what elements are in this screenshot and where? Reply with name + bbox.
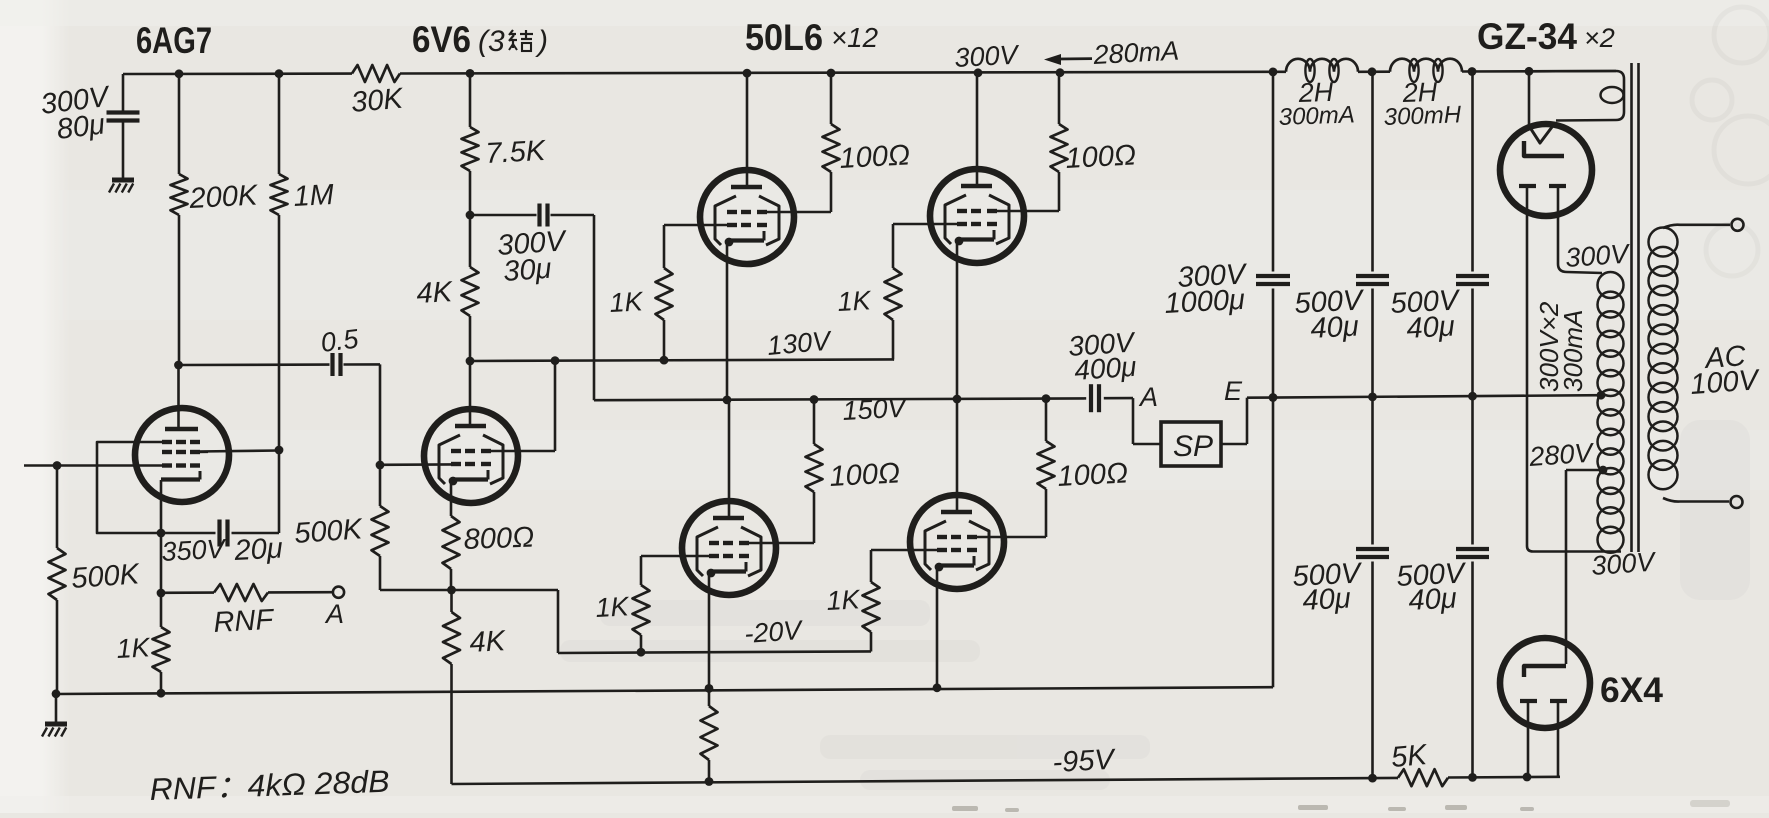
choke 2H 300mA (1286, 59, 1358, 82)
svg-text:100Ω: 100Ω (1057, 457, 1129, 493)
wire UR grid stub (893, 224, 957, 268)
label 280mA (1092, 36, 1180, 70)
resistor 1K UR grid (885, 268, 902, 320)
svg-text:350V: 350V (161, 534, 229, 567)
svg-text:280mA: 280mA (1092, 36, 1180, 70)
resistor 100ohm UL screen (823, 124, 840, 172)
label 1M (293, 179, 336, 213)
label E return (1224, 376, 1243, 406)
svg-text:300mA: 300mA (1558, 310, 1588, 392)
svg-text:1M: 1M (293, 179, 336, 213)
svg-text:40μ: 40μ (1406, 311, 1456, 345)
wire screen row lead-in (197, 450, 208, 453)
resistor 1K LL grid (633, 585, 650, 635)
capacitor 40u-3 plates (1356, 549, 1389, 557)
resistor 1K LR grid (863, 582, 880, 632)
wire UL screen stub (766, 172, 831, 212)
tube 6AG7 cathode bar (161, 471, 200, 480)
label 7.5K (485, 135, 548, 170)
wire 280V tap (1566, 469, 1603, 472)
svg-text:30μ: 30μ (502, 253, 552, 288)
resistor 5K (bias bleed) (1398, 769, 1448, 786)
wire 6V6 cathode stem (450, 478, 453, 516)
label 150V (842, 393, 910, 426)
wire 40u-2 vertical top (1471, 72, 1474, 272)
transformer core (1632, 63, 1639, 552)
label 500V 40u lower-1 (1292, 557, 1364, 617)
svg-text:7.5K: 7.5K (485, 135, 548, 170)
label 300V 1000u (1164, 258, 1249, 320)
node bias divider bottom (705, 777, 714, 786)
node 280V tap (1599, 466, 1608, 475)
svg-text:E: E (1224, 376, 1243, 406)
node 100ohm ML on rail (810, 395, 819, 404)
node UR cathode on rail (953, 395, 962, 404)
wire LL cathode stem (708, 571, 711, 688)
svg-text:1K: 1K (837, 285, 873, 317)
wire LR plate stem (956, 399, 959, 510)
tube GZ-34 plate right (1549, 184, 1566, 188)
label 500V 40u upper-1 (1294, 284, 1366, 345)
svg-text:150V: 150V (842, 393, 910, 426)
wire g3 row lead-in (136, 441, 162, 444)
wire LR cathode stem (936, 565, 939, 688)
wire 0.5 cap to grid corner (344, 364, 381, 465)
svg-text:40μ: 40μ (1302, 583, 1352, 617)
wire UL grid stub (664, 225, 727, 268)
wire 40u-2 vertical middle (1471, 289, 1474, 545)
label A terminal (324, 599, 344, 629)
node input junction (53, 461, 62, 470)
capacitor 40u-2 plates (1456, 276, 1489, 284)
svg-text:50L6: 50L6 (745, 17, 823, 58)
label 300Vx2 300mA rotated (1534, 301, 1588, 392)
wire UL plate stem (746, 73, 749, 185)
filament winding loop (1601, 87, 1624, 103)
resistor 1M (screen feed) (271, 174, 288, 215)
svg-text:1K: 1K (116, 632, 152, 664)
label 300V 400u (1067, 326, 1137, 386)
label 2H 300mH (1383, 77, 1462, 131)
svg-text:280V: 280V (1527, 437, 1596, 472)
wire 1000u vertical top (1272, 72, 1275, 272)
node bootstrap (466, 211, 475, 220)
wire AC top lead (1663, 225, 1730, 228)
label 1K UR (837, 285, 873, 317)
wire LL 100ohm to rail (813, 400, 816, 444)
ground symbol (main) (42, 694, 67, 737)
resistor 800ohm (6V6 cathode) (443, 516, 460, 569)
tube 6AG7 plate bar (165, 427, 198, 432)
tube 6AG7 plate stem (177, 425, 180, 430)
capacitor 30u plates (540, 204, 548, 227)
svg-text:100Ω: 100Ω (839, 139, 911, 175)
tube 50L6 lower-left (682, 501, 776, 595)
wire 40u-1 vertical bottom (1371, 562, 1374, 778)
node 40u-2 bottom (1468, 773, 1477, 782)
svg-text:6X4: 6X4 (1600, 671, 1664, 710)
wire g3-to-cathode tie (97, 442, 159, 533)
svg-text:×2: ×2 (1584, 23, 1615, 53)
resistor 500K (input load) (49, 466, 66, 693)
svg-text:100Ω: 100Ω (829, 457, 901, 493)
wire UL cathode stem (726, 240, 729, 400)
label RNF formula (149, 764, 390, 807)
resistor 500K (6V6 grid leak) (372, 465, 453, 590)
wire 150V output rail (594, 398, 1084, 400)
capacitor 20u plates (220, 520, 228, 547)
wire cathode node to -20V line (452, 590, 559, 653)
wire screen node down to 20u cap (278, 450, 281, 533)
wire 30u cap to 150V rail (551, 215, 595, 400)
node LL cathode on ground bus (705, 684, 714, 693)
tube 6X4 cathode left (1520, 701, 1537, 777)
capacitor 400u plates (1091, 384, 1099, 412)
svg-text:-95V: -95V (1052, 744, 1118, 779)
svg-text:300V: 300V (1564, 238, 1632, 273)
wire LL screen stub (748, 492, 814, 543)
label 5K (1390, 739, 1430, 774)
capacitor 0.5 plates (333, 353, 341, 376)
wire plate node to 0.5 cap (179, 363, 330, 366)
label 1K UL (609, 286, 645, 318)
tube GZ-34 cathode bar (1524, 141, 1564, 156)
node E/1000u junction (1269, 393, 1278, 402)
resistor 1K (6AG7 cathode) (153, 593, 170, 693)
wire 20u cap right lead (232, 532, 280, 535)
wire UR cathode stem (956, 239, 959, 399)
resistor bias divider (701, 688, 718, 781)
wire 40u-1 vertical top (1371, 72, 1374, 272)
node 100ohm MR on rail (1042, 394, 1051, 403)
wire UR 100ohm to B+ (1058, 73, 1061, 124)
wire UR screen stub (996, 172, 1059, 211)
svg-text:1K: 1K (595, 591, 631, 623)
svg-text:6V6: 6V6 (412, 19, 471, 60)
tube 6X4 cathode right (1550, 701, 1567, 777)
svg-text:300mA: 300mA (1278, 101, 1355, 131)
wire E line down to ground bus (1272, 398, 1275, 688)
resistor 4K (to -95V) (443, 590, 460, 784)
resistor 100ohm LR screen (1038, 441, 1055, 489)
capacitor 40u-1 plates (1356, 276, 1389, 284)
svg-text:30K: 30K (350, 82, 406, 119)
choke 2H 300mH (1390, 59, 1462, 82)
wire B+ to 1M (278, 74, 281, 174)
label 500V 40u upper-2 (1390, 284, 1462, 345)
wire 20u cap left lead (161, 532, 216, 535)
node ground left corner (52, 689, 61, 698)
node 6AG7 plate (174, 361, 183, 370)
wire LR grid stub (871, 550, 937, 582)
label 6AG7 (136, 20, 212, 61)
svg-text:800Ω: 800Ω (463, 522, 535, 556)
label A output (1138, 382, 1158, 412)
label x12 (831, 22, 878, 53)
label 800ohm (463, 522, 535, 556)
label kanji 3-ketsu (509, 30, 533, 51)
resistor 4K (bootstrap lower) (462, 267, 479, 316)
wire 40u-1 vertical middle (1371, 289, 1374, 545)
capacitor 40u-4 plates (1456, 549, 1489, 557)
wire 6AG7 cathode stem (160, 480, 163, 593)
svg-text:RNF: RNF (213, 604, 276, 639)
resistor 7.5K (bootstrap upper) (462, 127, 479, 171)
label (3 (478, 25, 505, 58)
wire GZ34 left plate to winding bottom (1527, 186, 1621, 552)
svg-text:4K: 4K (469, 625, 508, 659)
label 350V 20u (161, 533, 284, 568)
node 40u-2 on E line (1468, 392, 1477, 401)
wire cap 80u to ground (122, 121, 125, 180)
wire AC bottom lead (1663, 498, 1729, 502)
transformer AC primary winding (1649, 228, 1678, 490)
label 300V winding bottom (1590, 546, 1658, 581)
wire 400u to A corner (1104, 398, 1161, 444)
wire screen stub of 6AG7 (197, 451, 279, 452)
wire B+ to filter cap 80u (122, 74, 125, 111)
speaker box SP (1161, 422, 1221, 466)
wire RNF lead (161, 591, 214, 594)
svg-text:A: A (324, 599, 344, 629)
label SP (1173, 430, 1213, 463)
svg-text:4K: 4K (416, 276, 455, 310)
svg-text:500K: 500K (293, 513, 364, 550)
label 2H 300mA (1278, 77, 1355, 131)
svg-text:-20V: -20V (743, 615, 805, 649)
wire -95V bus left (452, 778, 1399, 784)
wire LL 1K to -20V bus (640, 635, 643, 653)
node 130V takeoff (466, 357, 475, 366)
svg-text:1K: 1K (826, 584, 862, 616)
label 300V 30u (496, 225, 568, 288)
svg-text:130V: 130V (766, 325, 834, 361)
label 4K lower (469, 625, 508, 659)
wire 6V6 screen up to 130V bus (490, 361, 555, 451)
label 280V (1527, 437, 1596, 472)
label 0.5 (319, 323, 361, 357)
terminal AC bottom (1731, 496, 1743, 508)
label 1K LL (595, 591, 631, 623)
tube 6AG7 envelope (135, 408, 229, 502)
tube 6X4 plate bar (1524, 666, 1566, 677)
svg-text:80μ: 80μ (55, 108, 107, 146)
node screen tie (551, 356, 560, 365)
resistor 100ohm UR screen (1051, 124, 1068, 172)
wire 280V to 6X4 plate (1565, 470, 1568, 664)
svg-text:SP: SP (1173, 430, 1213, 463)
svg-text:500K: 500K (70, 558, 141, 595)
wire -20V bias bus (558, 651, 871, 653)
node 40u-1 bottom (1368, 774, 1377, 783)
wire UR 1K to 130V bus end (893, 320, 894, 360)
capacitor 1000u plates (1256, 276, 1290, 284)
resistor 30K (series in B+ line) (352, 65, 400, 82)
wire B+ to 200K (178, 74, 181, 174)
resistor 1K UL grid (656, 268, 673, 320)
svg-text:300V: 300V (954, 40, 1022, 73)
wire B+ to GZ34 filament (1528, 71, 1531, 126)
label 300V winding top (1564, 238, 1632, 273)
svg-text:200K: 200K (188, 179, 260, 215)
terminal AC top (1732, 219, 1744, 231)
resistor 100ohm LL screen (806, 444, 823, 492)
node RNF junction (157, 589, 166, 598)
wire SP to E corner (1221, 398, 1247, 444)
svg-text:300mH: 300mH (1383, 101, 1462, 131)
label -95V (1052, 744, 1118, 779)
tube 6X4 envelope (1500, 638, 1590, 728)
svg-text:(3: (3 (478, 25, 505, 58)
node 1K left junction (660, 356, 669, 365)
node LR cathode on ground bus (933, 683, 942, 692)
wire B+ to filament winding (1529, 71, 1624, 121)
tube GZ-34 filament V (1529, 126, 1552, 143)
wire E line to transformer center tap (1247, 395, 1601, 398)
svg-text:300V: 300V (1590, 546, 1658, 581)
svg-text:40μ: 40μ (1408, 583, 1458, 617)
wire input line (24, 464, 136, 467)
svg-text:0.5: 0.5 (319, 323, 361, 357)
wire 7.5K to bootstrap node (469, 171, 472, 267)
label 6V6 (412, 19, 471, 60)
label 6X4 (1600, 671, 1664, 710)
wire LR 1K to -20V bus end (870, 632, 873, 652)
node 6AG7 screen (275, 446, 284, 455)
label 500K input (70, 558, 141, 595)
label x2 (1584, 23, 1615, 53)
ground symbol (80u cap) (109, 180, 134, 193)
svg-text:1000μ: 1000μ (1164, 284, 1246, 320)
label 300V top (954, 40, 1022, 73)
wire bootstrap node to 30u cap (470, 214, 537, 217)
node 6V6 grid (376, 461, 385, 470)
tube 50L6 upper-left (700, 170, 794, 264)
wire LL plate stem (728, 400, 731, 516)
wire 40u-2 vertical bottom (1471, 562, 1474, 777)
wire UR plate stem (976, 73, 979, 184)
wire to 6V6 grid (380, 463, 452, 466)
label 100ohm LL (829, 457, 901, 493)
label 130V (766, 325, 834, 361)
node 6X4 left stem bottom (1523, 773, 1532, 782)
label GZ-34 (1477, 16, 1577, 57)
svg-text:1K: 1K (609, 286, 645, 318)
tube 50L6 upper-right (930, 169, 1024, 263)
svg-text:GZ-34: GZ-34 (1477, 16, 1577, 57)
resistor 200K (6AG7 plate load) (171, 174, 188, 215)
arrow 280mA (1044, 54, 1092, 65)
wire 6V6 plate stem (469, 424, 472, 425)
terminal A circle (333, 587, 344, 598)
svg-text:100V: 100V (1689, 364, 1761, 401)
label 500K grid leak (293, 513, 364, 550)
wire UL 100ohm to B+ (830, 73, 833, 124)
node cathode/20u junction (157, 529, 166, 538)
label 300V 80u (39, 81, 113, 146)
wire rail to 400u cap (1084, 397, 1086, 400)
node 6V6 cathode divider (447, 586, 456, 595)
label 100ohm LR (1057, 457, 1129, 493)
node UL cathode on rail (723, 396, 732, 405)
svg-text:×12: ×12 (831, 22, 878, 53)
label -20V (743, 615, 805, 649)
label 100ohm UL (839, 139, 911, 175)
wire 1000u vertical bottom (1272, 289, 1275, 398)
wire 1M to screen node (278, 215, 281, 450)
wire LL grid stub (641, 556, 709, 585)
svg-text:6AG7: 6AG7 (136, 20, 212, 61)
svg-text:40μ: 40μ (1310, 311, 1360, 345)
wire UL 1K to 130V bus (663, 320, 666, 360)
wire -95V bus right (1448, 775, 1560, 778)
wire plate node to 6AG7 plate (177, 365, 180, 425)
wire LR screen stub (976, 489, 1046, 537)
wire 200K to plate node (178, 215, 181, 365)
node LL 1K on -20V bus (637, 648, 646, 657)
node 1K bottom (157, 689, 166, 698)
label 30K (350, 82, 406, 119)
tube GZ-34 plate left (1519, 184, 1536, 188)
tube 6AG7 grid dashes (162, 442, 200, 466)
label 1K cathode (116, 632, 152, 664)
label 1K LR (826, 584, 862, 616)
wire LR 100ohm to rail (1045, 399, 1048, 441)
wire 130V bus (470, 359, 894, 361)
capacitor 80u plates (107, 113, 140, 121)
label 100ohm UR (1065, 139, 1137, 175)
label RNF (213, 604, 276, 639)
svg-text:20μ: 20μ (233, 533, 284, 568)
label 200K (188, 179, 260, 215)
tube 50L6 lower-right (910, 495, 1004, 589)
transformer HV secondary winding (1598, 272, 1624, 553)
wire ground bus (56, 687, 1273, 694)
wire 800ohm to -20V node (450, 569, 453, 590)
label 50L6 (745, 17, 823, 58)
node 40u-1 on E line (1368, 393, 1377, 402)
svg-text:5K: 5K (1390, 739, 1430, 774)
resistor RNF (214, 584, 268, 601)
node center tap (1597, 391, 1606, 400)
tube 6V6 symbol (424, 409, 518, 503)
svg-text:A: A (1138, 382, 1158, 412)
svg-text:400μ: 400μ (1073, 351, 1137, 386)
tube GZ-34 envelope (1500, 124, 1592, 216)
wire B+ to 7.5K (469, 73, 472, 127)
wire 4K to 6V6 plate (469, 316, 472, 425)
label AC 100V (1689, 340, 1761, 401)
node junction dots on B+ bus (175, 67, 1534, 78)
label 4K bootstrap (416, 276, 455, 310)
label 500V 40u lower-2 (1396, 557, 1468, 617)
wire GZ34 right plate to winding top (1558, 186, 1602, 273)
wire grid row lead-in (136, 464, 162, 467)
svg-text:100Ω: 100Ω (1065, 139, 1137, 175)
label ) (535, 25, 548, 58)
wire RNF to terminal A (268, 591, 332, 594)
wire B+ top bus (123, 71, 1616, 74)
